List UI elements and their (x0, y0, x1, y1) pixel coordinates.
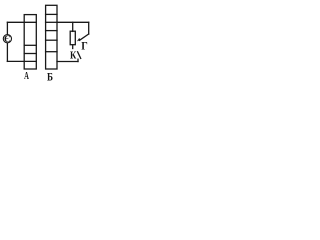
svg-text:А: А (24, 71, 29, 82)
svg-text:Г: Г (81, 40, 88, 52)
svg-text:К: К (70, 51, 77, 62)
svg-text:Є: Є (4, 35, 11, 45)
svg-text:Б: Б (47, 71, 53, 83)
